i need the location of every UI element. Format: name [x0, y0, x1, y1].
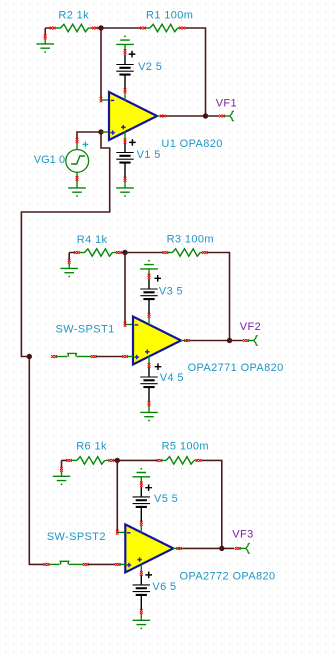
svg-text:SW-SPST2: SW-SPST2 — [47, 531, 106, 543]
svg-text:SW-SPST1: SW-SPST1 — [56, 323, 115, 335]
pin output opamp3 — [173, 547, 182, 550]
resistor R2 — [50, 9, 98, 31]
ground (R6 left) — [53, 460, 71, 485]
voltage pin VF3 — [232, 529, 253, 554]
battery V3 — [140, 269, 183, 325]
op-amp U1 — [109, 92, 223, 150]
node rail junction — [27, 354, 32, 359]
pin output opamp2 — [181, 339, 190, 342]
node C junction — [122, 250, 127, 255]
ground (V4) — [140, 412, 158, 421]
pin - input U1 — [100, 97, 109, 102]
ground (R2 left) — [36, 28, 54, 53]
battery V5 — [133, 477, 179, 533]
voltage pin VF1 — [216, 97, 237, 121]
ground (V6) — [133, 620, 151, 629]
node B junction (noninverting input) — [98, 129, 103, 134]
node A junction — [98, 25, 103, 30]
wire (output row) — [166, 115, 219, 117]
wire (node C to inverting input) — [124, 253, 126, 324]
node VF3 junction — [219, 546, 224, 551]
resistor R3 — [163, 233, 214, 256]
wire (VG1 top to node B) — [77, 132, 101, 139]
ground (VG1) — [68, 188, 86, 197]
op-amp OPA2771 — [133, 317, 284, 375]
node VF1 junction — [203, 113, 208, 118]
svg-text:VF3: VF3 — [232, 529, 253, 541]
ground (V1) — [116, 188, 134, 197]
resistor R5 — [157, 440, 209, 464]
flipped ground (V5 top) — [133, 468, 151, 477]
svg-text:VF2: VF2 — [240, 321, 261, 333]
pin - input opamp2 — [124, 322, 133, 327]
ground (R4 left) — [60, 253, 78, 278]
wire (top row circuit3) — [62, 460, 222, 548]
flipped ground (V3 top) — [140, 260, 158, 269]
svg-text:R4 1k: R4 1k — [77, 234, 108, 246]
svg-text:VF1: VF1 — [216, 97, 237, 109]
svg-text:V2 5: V2 5 — [138, 61, 162, 73]
pin output U1 — [157, 115, 166, 118]
wire (output row circuit2) — [190, 340, 243, 342]
battery V6 — [133, 564, 177, 620]
svg-text:OPA2771 OPA820: OPA2771 OPA820 — [188, 362, 284, 374]
svg-text:U1 OPA820: U1 OPA820 — [161, 138, 222, 150]
pin - input opamp3 — [116, 530, 125, 535]
resistor R1 — [140, 9, 193, 31]
wire (node B down to left rail and switches) — [21, 132, 109, 564]
op-amp OPA2772 — [125, 524, 275, 582]
svg-text:V1 5: V1 5 — [137, 149, 161, 161]
svg-text:R3 100m: R3 100m — [167, 233, 214, 245]
svg-text:OPA2772 OPA820: OPA2772 OPA820 — [180, 570, 276, 582]
switch SW-SPST2 — [44, 531, 126, 566]
wire (node A to inverting input) — [100, 28, 102, 99]
node VF2 junction — [227, 338, 232, 343]
wire (top row circuit2) — [69, 253, 229, 341]
battery V4 — [140, 356, 184, 412]
svg-text:R5 100m: R5 100m — [162, 440, 209, 452]
svg-text:R1 100m: R1 100m — [146, 9, 193, 21]
svg-text:V4 5: V4 5 — [160, 372, 184, 384]
svg-text:R6 1k: R6 1k — [76, 440, 107, 452]
svg-text:V3 5: V3 5 — [159, 285, 183, 297]
battery V1 — [116, 132, 160, 188]
voltage pin VF2 — [240, 321, 261, 346]
wire (output row circuit3) — [182, 547, 234, 549]
flipped ground (V2 top) — [116, 35, 134, 44]
svg-text:VG1 0: VG1 0 — [34, 154, 65, 166]
svg-text:V6 5: V6 5 — [152, 581, 176, 593]
svg-text:R2 1k: R2 1k — [58, 9, 89, 21]
svg-text:V5 5: V5 5 — [154, 493, 178, 505]
wire (node D to inverting input) — [116, 460, 118, 531]
wire (top row circuit1) — [45, 28, 205, 116]
switch SW-SPST1 — [51, 323, 133, 358]
battery V2 — [116, 44, 162, 100]
pin + input U1 — [101, 131, 109, 133]
resistor R4 — [74, 234, 122, 256]
resistor R6 — [66, 440, 114, 464]
node D junction — [115, 458, 120, 463]
generator VG1 — [34, 138, 89, 188]
